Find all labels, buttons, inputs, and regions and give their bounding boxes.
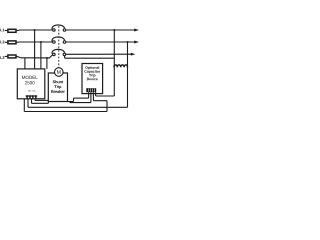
wire tap L1 to monitor box (34, 30, 36, 69)
node CT tap on L1 junction dot (113, 29, 115, 31)
wire feeder stub below pole3 right contact (64, 56, 66, 58)
node tap L2 junction dot (40, 41, 42, 43)
op box shunt trip breaker (48, 73, 67, 102)
terminal wires U2 through box bottom (88, 92, 90, 93)
op box U2 optional capacitor trip device (82, 64, 103, 94)
breaker CB1 pole 3 contact circles (53, 53, 56, 56)
wire pole 2 to load arrow (66, 41, 135, 43)
wire CT primary from L1 down (113, 30, 115, 96)
terminal block U2 (86, 88, 96, 93)
wire L1 fuse to breaker pole 1 (17, 29, 53, 32)
wire U1-T1 long run (23, 99, 25, 112)
breaker CB1 pole 3 blade arc (52, 49, 65, 53)
wire tap L3 to monitor box (24, 58, 26, 69)
wire junction riser x107 (106, 101, 108, 112)
wire tap L2 to monitor box (40, 42, 42, 69)
wire L2 fuse to breaker pole 2 (17, 41, 53, 43)
arrow load L2 (134, 41, 139, 44)
fuse F2 (8, 41, 16, 44)
breaker CB1 pole 1 contact circles (53, 29, 56, 32)
wire U2-T1 down (88, 94, 90, 99)
node L2 label (0, 41, 4, 44)
breaker CB1 pole 1 blade arc (52, 25, 65, 29)
wire CT primary from L2 down (127, 42, 129, 107)
fuse F3 (8, 55, 16, 58)
wire U2-T1 left to breaker (74, 97, 89, 99)
wire U2-T2 left to breaker (70, 102, 91, 104)
wire U1-T3 to breaker box bottom (31, 99, 33, 104)
wire L3 fuse to breaker pole 3 (17, 55, 53, 58)
wire pole 1 to load arrow (66, 29, 135, 31)
breaker CB1 pole 2 blade arc (52, 37, 65, 41)
wire U2-T3 down (92, 94, 94, 101)
wire U1-T4 to breaker box left (34, 99, 36, 101)
wire feeder tap into monitor box at x46.9 (46, 58, 48, 69)
wire L2 label to fuse F2 (5, 41, 8, 43)
wire U2-T4 to CT left leg (95, 94, 97, 96)
wire U1-T2 long run (27, 99, 29, 108)
breaker gang dashed link (58, 26, 60, 67)
arrow load L1 (134, 29, 139, 32)
node tap L1 junction dot (34, 29, 36, 31)
terminal lug U1-4 (34, 95, 37, 97)
coil T1 winding bumps (114, 65, 128, 67)
node L1 label (0, 29, 4, 32)
motor operator M1 circle (55, 68, 64, 77)
terminal lug U1-3 (32, 95, 35, 97)
terminal lug U1-2 (29, 95, 32, 97)
wire U2-T3 right (93, 100, 107, 102)
node tap L3 junction dot (46, 57, 48, 59)
wire U2-T2 down (90, 94, 92, 103)
wire feeder to CT leg (65, 57, 115, 59)
wire L1 label to fuse F1 (5, 30, 8, 32)
fuse F1 (8, 29, 16, 32)
terminal lug U1-1 (26, 95, 38, 99)
node L3 label (0, 56, 4, 59)
node CT tap on L2 junction dot (127, 41, 129, 43)
terminal labels U1 (28, 90, 35, 92)
arrow load L3 (131, 53, 136, 56)
wire L3 label to fuse F3 (5, 55, 8, 57)
breaker CB1 pole 2 contact circles (53, 41, 56, 44)
wire pole 3 to load arrow (66, 53, 132, 55)
op box U1 MODEL 2500 (17, 69, 45, 99)
